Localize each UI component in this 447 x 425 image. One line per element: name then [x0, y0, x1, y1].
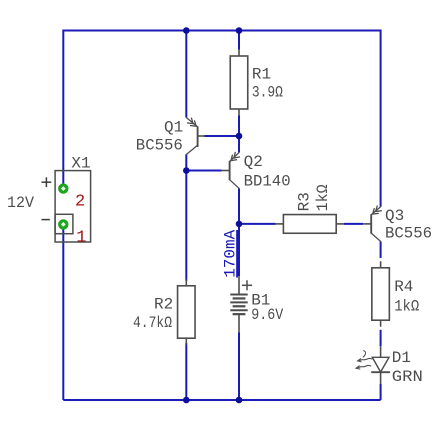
svg-text:R4: R4 [394, 278, 413, 296]
svg-text:BC556: BC556 [385, 224, 432, 242]
svg-text:Q2: Q2 [244, 153, 263, 171]
svg-text:R1: R1 [252, 66, 271, 84]
svg-text:1: 1 [76, 228, 86, 247]
svg-text:Q1: Q1 [164, 119, 183, 137]
svg-text:GRN: GRN [392, 368, 423, 386]
svg-text:X1: X1 [71, 155, 90, 173]
svg-text:3.9Ω: 3.9Ω [252, 84, 283, 102]
svg-text:1kΩ: 1kΩ [314, 184, 332, 211]
svg-text:9.6V: 9.6V [251, 306, 283, 324]
svg-text:R2: R2 [154, 296, 173, 314]
svg-text:D1: D1 [392, 349, 411, 367]
svg-text:1kΩ: 1kΩ [394, 298, 419, 316]
svg-text:BC556: BC556 [136, 137, 183, 155]
svg-text:2: 2 [75, 192, 85, 211]
svg-text:12V: 12V [7, 194, 34, 212]
svg-text:170mA: 170mA [222, 229, 240, 277]
svg-text:R3: R3 [295, 192, 313, 211]
svg-text:4.7kΩ: 4.7kΩ [133, 314, 172, 332]
svg-text:Q3: Q3 [385, 207, 404, 225]
svg-text:BD140: BD140 [244, 172, 291, 190]
